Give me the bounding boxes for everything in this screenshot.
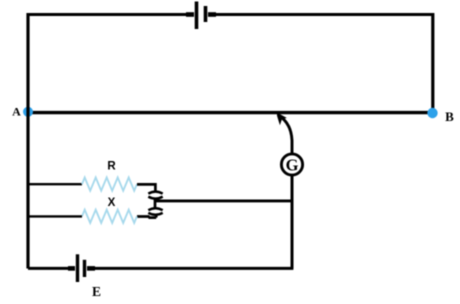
wire: bottom left segment <box>28 267 75 270</box>
jockey arrow (sliding contact) <box>277 113 292 154</box>
wire: top left segment <box>28 13 194 16</box>
svg-text:X: X <box>108 197 116 209</box>
battery E (bottom cell) <box>68 254 95 282</box>
wire: right vertical <box>431 13 434 113</box>
svg-text:G: G <box>286 156 299 175</box>
key K1 contact b (lower curved plates) <box>148 208 162 215</box>
key K1 contact a (upper curved plates) <box>148 192 162 199</box>
wire: left vertical <box>26 13 29 269</box>
node A (blue dot) <box>23 107 33 117</box>
wire: X branch right lead <box>137 214 156 218</box>
wire: key to galvanometer branch <box>155 199 292 202</box>
wire: key middle junction stub <box>154 199 157 209</box>
resistor X (zigzag) <box>82 210 137 223</box>
wire: R branch right lead <box>137 183 155 191</box>
svg-text:A: A <box>12 105 21 119</box>
svg-text:R: R <box>107 161 116 173</box>
galvanometer G <box>281 154 302 175</box>
wire: X branch left lead <box>29 215 82 217</box>
wire: top right segment <box>209 13 435 16</box>
resistor R (zigzag) <box>82 178 137 191</box>
svg-text:B: B <box>445 109 454 124</box>
wire: galvanometer to bottom <box>291 175 294 269</box>
battery V1 (top cell) <box>186 2 216 30</box>
wire: bottom right segment <box>88 267 294 270</box>
wire: R branch left lead <box>29 183 82 185</box>
wire: A-B potentiometer wire <box>28 111 432 114</box>
svg-text:E: E <box>92 284 101 299</box>
node B (blue dot) <box>427 108 437 118</box>
